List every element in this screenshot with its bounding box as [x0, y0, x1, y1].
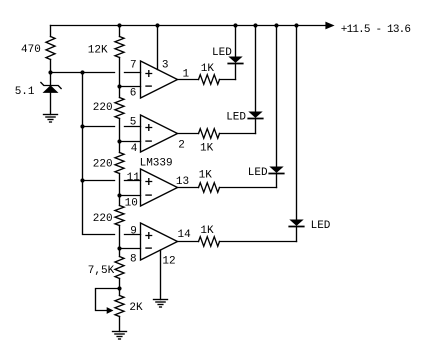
wire pin 9 stub [125, 234, 141, 236]
wire pot wiper loop [96, 289, 120, 311]
wire R 1K to LED 2 cathode [220, 133, 256, 135]
wire R 1K to LED 4 cathode [220, 241, 297, 243]
resistor 1K 2 [199, 129, 220, 139]
op-amp comparator 3 (LM339) [141, 169, 178, 206]
zener diode 5.1 bar [41, 83, 61, 89]
junction rail at pin 3 drop [155, 23, 159, 27]
svg-text:9: 9 [130, 225, 137, 237]
svg-text:LED: LED [226, 111, 246, 123]
wire LED 1 cathode down [235, 64, 237, 80]
svg-text:LED: LED [248, 167, 268, 179]
plus symbol comparator 2 [146, 125, 152, 131]
wire LED 3 cathode down [276, 174, 278, 188]
wire pin 3 supply [157, 26, 159, 70]
svg-text:220: 220 [93, 213, 113, 225]
svg-text:1K: 1K [199, 169, 213, 181]
junction rail at LED 2 [253, 23, 257, 27]
op-amp comparator 1 (LM339) [141, 61, 178, 98]
junction tap pin 8 [117, 246, 121, 250]
wire output 14 to R 1K [178, 241, 199, 243]
wire pin 5 stub [125, 126, 141, 128]
zener diode 5.1 triangle [44, 86, 57, 92]
ground zener [44, 115, 58, 123]
svg-text:1K: 1K [200, 225, 214, 237]
minus symbol comparator 3 [146, 194, 151, 196]
wire rail to LED 4 anode [296, 26, 298, 221]
svg-text:4: 4 [131, 143, 138, 155]
LED 4 [289, 220, 303, 226]
ground pot 2K [113, 332, 127, 340]
LED 3 [269, 167, 283, 173]
resistor 220 c [115, 206, 124, 226]
wire zener to ground [50, 92, 52, 114]
wire R 220c to R 7.5K [119, 226, 121, 257]
wire pin 4 stub [120, 141, 141, 143]
svg-text:12: 12 [162, 255, 175, 267]
wire R 1K to LED 1 cathode [220, 79, 236, 81]
svg-text:7,5K: 7,5K [88, 265, 115, 277]
plus symbol comparator 3 [146, 179, 152, 185]
wire LED 2 cathode down [255, 119, 257, 134]
wire pin 12 to ground [160, 250, 162, 300]
wire pin 7 stub [125, 72, 141, 74]
junction tap pin 4 [117, 139, 121, 143]
wire R 220b to R 220c [119, 174, 121, 206]
svg-text:13: 13 [176, 176, 189, 188]
resistor 220 b [115, 153, 124, 174]
svg-text:14: 14 [178, 229, 192, 241]
svg-text:220: 220 [93, 158, 113, 170]
wire pin 11 stub [125, 180, 141, 182]
junction rail at LED 3 [274, 23, 278, 27]
junction rail at LED 1 [233, 23, 237, 27]
wire ref to pin 5 left segment [83, 126, 115, 128]
wire R 12K to R 220a [119, 58, 121, 98]
svg-text:LED: LED [311, 220, 331, 232]
resistor 470 [46, 37, 55, 60]
arrow pot wiper [107, 307, 114, 314]
wire pin 8 stub [120, 248, 141, 250]
LED 1 [228, 57, 242, 63]
junction pot top tap [117, 286, 121, 290]
svg-text:10: 10 [125, 197, 138, 209]
minus symbol comparator 4 [146, 247, 151, 249]
svg-text:1K: 1K [201, 63, 215, 75]
svg-text:220: 220 [93, 102, 113, 114]
wire rail to R 12K [119, 26, 121, 37]
resistor 1K 4 [199, 237, 220, 247]
wire output 2 to R 1K [178, 133, 199, 135]
junction ref at pin 5 [80, 124, 84, 128]
wire pin 6 stub [120, 86, 141, 88]
svg-text:8: 8 [130, 253, 137, 265]
junction zener node [48, 70, 52, 74]
wire zener node to ref line [51, 72, 115, 74]
wire R 220a to R 220b [119, 119, 121, 153]
svg-text:LM339: LM339 [140, 157, 173, 169]
svg-text:5.1: 5.1 [15, 86, 35, 98]
potentiometer 2K element [115, 296, 124, 317]
resistor 220 a [115, 98, 124, 119]
wire reference 5.1V vertical [83, 73, 115, 235]
wire output 1 to R 1K [178, 79, 199, 81]
junction tap pin 10 [117, 193, 121, 197]
svg-text:LED: LED [212, 47, 232, 59]
junction ref at pin 11 [80, 178, 84, 182]
minus symbol comparator 1 [146, 85, 151, 87]
wire +V rail [51, 25, 327, 27]
svg-text:+11.5 - 13.6: +11.5 - 13.6 [341, 24, 411, 36]
junction rail at chain [117, 23, 121, 27]
resistor 12K [115, 37, 124, 58]
svg-text:1: 1 [183, 69, 190, 81]
ground pin 12 [154, 300, 168, 308]
resistor 1K 1 [199, 75, 220, 85]
svg-text:3: 3 [162, 59, 169, 71]
junction rail at LED 4 [294, 23, 298, 27]
wire LED 4 cathode down [296, 227, 298, 242]
plus symbol comparator 1 [146, 71, 152, 77]
wire rail to LED 3 anode [276, 26, 278, 168]
resistor 7.5K [115, 257, 124, 279]
wire R 7.5K to pot 2K [119, 279, 121, 296]
wire rail to R 470 [50, 26, 52, 37]
op-amp comparator 4 (LM339) [141, 223, 178, 260]
wire rail to LED 2 anode [255, 26, 257, 113]
junction ref line top [80, 70, 84, 74]
resistor 1K 3 [199, 183, 220, 193]
svg-text:11: 11 [127, 172, 141, 184]
wire R 470 to zener node [50, 60, 52, 73]
wire pot 2K to ground [119, 317, 121, 332]
svg-text:6: 6 [130, 87, 137, 99]
wire pin 10 stub [120, 195, 141, 197]
arrow +V rail head [325, 22, 334, 30]
minus symbol comparator 2 [146, 140, 151, 142]
svg-text:2K: 2K [129, 302, 143, 314]
LED 2 [248, 112, 262, 118]
svg-text:7: 7 [130, 59, 137, 71]
wire ref to pin 11 left segment [83, 180, 115, 182]
svg-text:12K: 12K [88, 44, 108, 56]
wire zener node to zener [50, 73, 52, 86]
svg-text:2: 2 [178, 140, 185, 152]
svg-text:470: 470 [21, 44, 41, 56]
wire R 1K to LED 3 cathode [220, 187, 277, 189]
wire output 13 to R 1K [178, 187, 199, 189]
op-amp comparator 2 (LM339) [141, 115, 178, 152]
svg-text:1K: 1K [200, 143, 214, 155]
plus symbol comparator 4 [146, 233, 152, 239]
junction tap pin 6 [117, 84, 121, 88]
wire rail to LED 1 anode [235, 26, 237, 58]
